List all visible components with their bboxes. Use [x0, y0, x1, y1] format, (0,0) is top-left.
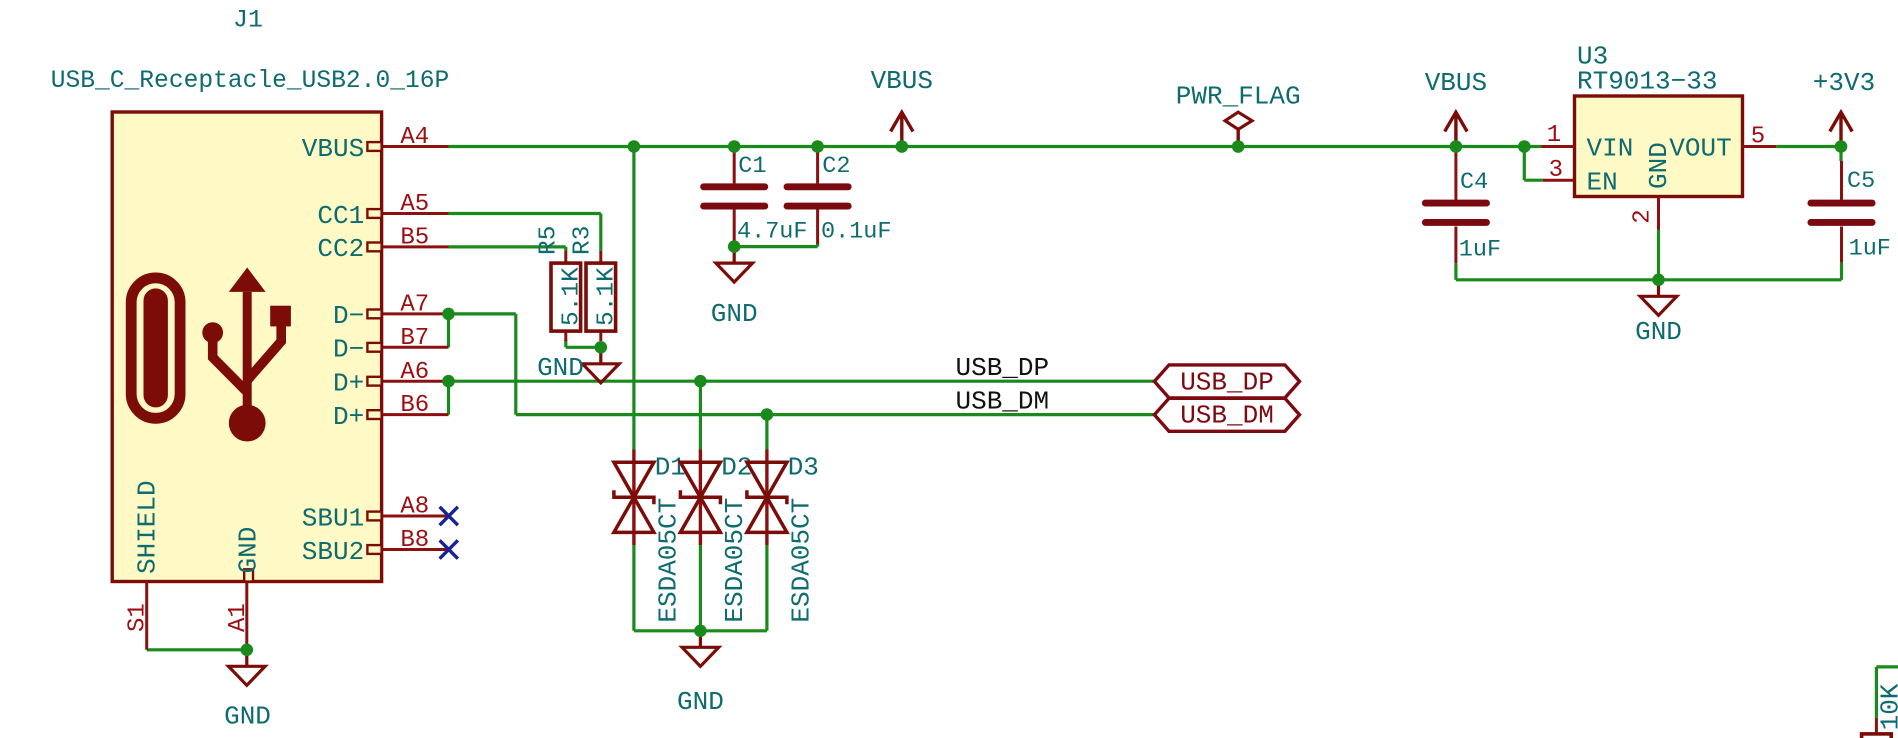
- wire USB_DP: [449, 380, 1155, 383]
- wire C1-C2 bottom: [734, 245, 817, 248]
- svg-text:USB_C_Receptacle_USB2.0_16P: USB_C_Receptacle_USB2.0_16P: [51, 68, 449, 95]
- junction USB_DP-D2: [694, 375, 707, 388]
- svg-text:ESDA05CT: ESDA05CT: [787, 498, 817, 623]
- svg-text:A5: A5: [400, 191, 429, 218]
- svg-text:D2: D2: [721, 453, 752, 483]
- J1 pin A1 (GND): [245, 582, 248, 650]
- wire D2 top: [699, 381, 702, 449]
- svg-text:1: 1: [1547, 122, 1561, 149]
- resistor R5: [564, 251, 567, 263]
- svg-text:D+: D+: [333, 402, 364, 432]
- J1 pin S1 (SHIELD): [145, 582, 148, 650]
- junction shield GND: [241, 644, 254, 657]
- C4 plates: [1425, 200, 1486, 207]
- wire CC2 to R5: [449, 245, 566, 248]
- wire U3 gnd v: [1657, 230, 1660, 280]
- wire D3 bottom: [765, 545, 768, 631]
- power symbol +3V3: [1839, 112, 1842, 146]
- svg-text:USB_DP: USB_DP: [956, 353, 1050, 383]
- svg-text:2: 2: [1630, 209, 1657, 223]
- junction C1 GND: [728, 240, 741, 253]
- ground (TVS): [699, 631, 702, 648]
- no-connect X on SBU2: [440, 540, 458, 558]
- hierarchical label USB_DM: [1154, 398, 1299, 431]
- J1 pin B7 (D−): [383, 346, 449, 349]
- svg-text:B8: B8: [400, 527, 429, 554]
- junction VBUS-D1: [628, 140, 641, 153]
- capacitor C2: [816, 149, 819, 183]
- svg-text:0.1uF: 0.1uF: [821, 219, 892, 246]
- junction VBUS symbol: [896, 140, 909, 153]
- wire D- vertical: [514, 314, 517, 415]
- svg-text:A6: A6: [400, 359, 429, 386]
- power symbol VBUS (mid): [900, 112, 903, 146]
- wire EN branch h: [1524, 179, 1543, 182]
- wire bottom rail C4-C5: [1456, 278, 1842, 281]
- C5 plates: [1811, 200, 1872, 207]
- J1 pin A4 (VBUS): [383, 145, 449, 148]
- svg-text:VBUS: VBUS: [1425, 68, 1487, 98]
- junction TVS GND: [694, 625, 707, 638]
- connector J1 body: [112, 112, 381, 582]
- wire USB_DM: [516, 413, 1155, 416]
- C1 plates: [704, 183, 765, 190]
- svg-text:USB_DM: USB_DM: [1180, 401, 1274, 431]
- wire EN branch v: [1523, 147, 1526, 181]
- C2 plates: [787, 183, 848, 190]
- svg-text:D3: D3: [788, 453, 819, 483]
- junction VBUS-C4: [1450, 140, 1463, 153]
- wire C5 top v: [1839, 147, 1842, 162]
- regulator U3 body: [1575, 96, 1743, 197]
- svg-text:PWR_FLAG: PWR_FLAG: [1176, 82, 1301, 112]
- svg-text:VBUS: VBUS: [302, 134, 364, 164]
- U3 pin 5 VOUT: [1743, 145, 1777, 148]
- svg-text:C5: C5: [1847, 168, 1875, 195]
- power flag symbol: [1236, 129, 1239, 146]
- wire bottom right v: [1875, 667, 1878, 718]
- U3 pin 2 GND: [1657, 197, 1660, 230]
- svg-text:R5: R5: [536, 226, 563, 255]
- svg-text:VBUS: VBUS: [871, 66, 933, 96]
- svg-text:RT9013−33: RT9013−33: [1577, 67, 1717, 97]
- J1 pin A6 (D+): [383, 380, 449, 383]
- junction A6/B6: [442, 375, 455, 388]
- ground (shield): [245, 650, 248, 667]
- capacitor C5: [1840, 161, 1843, 200]
- J1 USB-C connector glyph (capsule): [131, 278, 180, 418]
- junction USB_DM-D3: [761, 408, 774, 421]
- junction A7/B7: [442, 308, 455, 321]
- svg-text:S1: S1: [124, 603, 151, 632]
- wire shield to gnd: [147, 648, 247, 651]
- svg-text:5: 5: [1751, 124, 1765, 151]
- svg-text:ESDA05CT: ESDA05CT: [720, 498, 750, 623]
- J1 pin B8 (SBU2): [383, 548, 449, 551]
- TVS diode D1: [632, 450, 635, 546]
- wire R5 bottom corner h: [566, 346, 601, 349]
- wire C2 bottom v: [816, 243, 819, 247]
- junction VBUS-C1: [728, 140, 741, 153]
- power symbol VBUS (right): [1454, 112, 1457, 146]
- junction PWR_FLAG: [1232, 140, 1245, 153]
- J1 USB trident glyph: [229, 268, 266, 292]
- ground (U3): [1657, 280, 1660, 297]
- wire B6 link: [447, 381, 450, 414]
- svg-text:B6: B6: [400, 392, 429, 419]
- svg-text:A1: A1: [225, 603, 252, 632]
- wire CC1 vertical: [599, 214, 602, 252]
- capacitor C4: [1454, 151, 1457, 200]
- wire bottom right h: [1876, 665, 1898, 668]
- svg-text:VOUT: VOUT: [1669, 134, 1731, 164]
- svg-text:GND: GND: [711, 299, 758, 329]
- svg-text:GND: GND: [1635, 317, 1682, 347]
- svg-text:GND: GND: [234, 527, 264, 574]
- no-connect X on SBU1: [440, 507, 458, 525]
- wire D1 top: [632, 147, 635, 450]
- junction R divider GND: [595, 341, 608, 354]
- hierarchical label USB_DP: [1154, 365, 1299, 398]
- wire D1 bottom: [632, 545, 635, 631]
- svg-text:GND: GND: [677, 687, 724, 717]
- svg-text:+3V3: +3V3: [1813, 68, 1875, 98]
- J1 pin B5 (CC2): [383, 245, 449, 248]
- svg-text:USB_DP: USB_DP: [1180, 367, 1274, 397]
- junction +3V3: [1835, 140, 1848, 153]
- svg-text:J1: J1: [233, 6, 263, 35]
- TVS diode D2: [699, 450, 702, 546]
- svg-text:D1: D1: [655, 453, 686, 483]
- wire C4 bottom v: [1454, 263, 1457, 280]
- svg-text:B7: B7: [400, 325, 429, 352]
- svg-text:GND: GND: [537, 353, 584, 383]
- junction U3 GND rail: [1652, 274, 1665, 287]
- resistor R3: [599, 251, 602, 263]
- wire D- horizontal: [449, 312, 516, 315]
- wire VOUT to +3V3: [1776, 145, 1841, 148]
- svg-text:B5: B5: [400, 225, 429, 252]
- svg-text:A7: A7: [400, 292, 429, 319]
- wire C5 bottom v: [1840, 263, 1843, 280]
- svg-text:3: 3: [1549, 157, 1563, 184]
- TVS diode D3: [765, 450, 768, 546]
- svg-text:1uF: 1uF: [1459, 237, 1501, 264]
- ground (C1/C2): [733, 247, 736, 264]
- wire VBUS main: [449, 145, 1542, 148]
- wire R5 bottom corner v: [564, 340, 567, 347]
- J1 pin A8 (SBU1): [383, 515, 449, 518]
- capacitor C1: [733, 149, 736, 183]
- svg-text:VIN: VIN: [1587, 134, 1634, 164]
- svg-text:1uF: 1uF: [1849, 236, 1891, 263]
- J1 pin A7 (D−): [383, 312, 449, 315]
- wire B7 link: [447, 314, 450, 347]
- svg-text:A8: A8: [400, 494, 429, 521]
- J1 pin A5 (CC1): [383, 212, 449, 215]
- junction EN branch: [1518, 140, 1531, 153]
- svg-text:CC1: CC1: [317, 201, 364, 231]
- J1 pin B6 (D+): [383, 413, 449, 416]
- wire D2 bottom: [699, 545, 702, 631]
- svg-text:SBU1: SBU1: [302, 503, 364, 533]
- resistor (partial, bottom right) body: [1862, 734, 1892, 738]
- svg-text:EN: EN: [1587, 168, 1618, 198]
- svg-text:SHIELD: SHIELD: [133, 480, 163, 574]
- svg-text:D−: D−: [333, 335, 364, 365]
- svg-text:USB_DM: USB_DM: [956, 386, 1050, 416]
- junction VBUS-C2: [811, 140, 824, 153]
- svg-text:D−: D−: [333, 301, 364, 331]
- svg-text:C1: C1: [738, 153, 766, 180]
- svg-text:SBU2: SBU2: [302, 537, 364, 567]
- wire D3 top: [765, 415, 768, 450]
- svg-text:C2: C2: [822, 153, 850, 180]
- U3 pin 3 EN: [1543, 179, 1575, 182]
- wire diode ground rail: [634, 629, 767, 632]
- svg-text:GND: GND: [1644, 142, 1674, 189]
- wire CC1 to R3: [449, 212, 601, 215]
- svg-text:R3: R3: [569, 226, 596, 255]
- svg-text:ESDA05CT: ESDA05CT: [654, 498, 684, 623]
- svg-text:C4: C4: [1460, 169, 1488, 196]
- ground (CC divider): [599, 347, 602, 364]
- svg-text:4.7uF: 4.7uF: [737, 219, 808, 246]
- svg-text:D+: D+: [333, 369, 364, 399]
- svg-text:A4: A4: [400, 124, 429, 151]
- wire CC2 vertical: [564, 247, 567, 251]
- svg-text:5.1K: 5.1K: [558, 267, 585, 326]
- svg-text:10K: 10K: [1875, 683, 1898, 730]
- svg-text:GND: GND: [224, 701, 271, 731]
- svg-text:CC2: CC2: [317, 234, 364, 264]
- resistor (partial, bottom right) pin: [1875, 718, 1878, 734]
- U3 pin 1 VIN: [1541, 145, 1574, 148]
- svg-text:5.1K: 5.1K: [593, 267, 620, 326]
